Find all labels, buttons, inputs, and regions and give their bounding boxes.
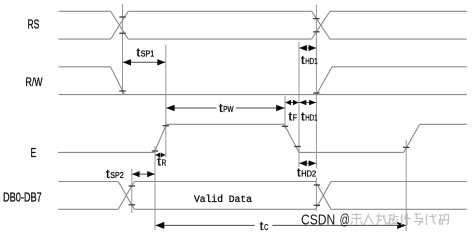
watermark hanzi 入	[364, 214, 374, 226]
watermark hanzi 与	[414, 213, 423, 225]
arrow line tF	[286, 102, 299, 104]
svg-text:SP2: SP2	[110, 171, 124, 180]
arrowhead tR left	[155, 153, 160, 158]
tick V1 x RW fall	[119, 90, 125, 92]
wire E high segment	[166, 123, 284, 125]
watermark hanzi 嵌	[351, 213, 363, 225]
arrowhead tHD1 top left	[299, 45, 307, 51]
RS crossover X1	[111, 11, 129, 39]
svg-text:SP1: SP1	[141, 50, 155, 59]
DB crossover X1	[118, 182, 134, 210]
svg-text:R: R	[162, 159, 167, 168]
tick V3 x E fall top	[282, 125, 288, 127]
arrowhead tHD1 bottom right	[309, 100, 316, 105]
svg-text:@: @	[340, 212, 350, 229]
tick V5 x RW rise	[313, 92, 319, 94]
svg-text:Valid Data: Valid Data	[194, 194, 252, 206]
watermark hanzi 代	[426, 214, 436, 226]
svg-text:C: C	[264, 223, 268, 232]
arrowhead tPW right	[276, 105, 285, 111]
arrow line tHD2	[300, 162, 316, 164]
measure line V7 at E rise start	[154, 146, 156, 230]
arrowhead tSP1 right	[157, 59, 165, 65]
wire DB0-DB7 high segments	[59, 181, 467, 183]
wire E low segments	[58, 151, 404, 153]
arrow line tPW left part	[166, 107, 216, 109]
E falling edge	[284, 124, 299, 152]
watermark hanzi 码	[439, 215, 449, 225]
tick V8 x E rise2	[403, 146, 409, 148]
svg-text:PW: PW	[223, 105, 234, 114]
wire RS high segments	[59, 10, 467, 12]
tick V6 x DB X1 rise	[129, 185, 135, 187]
tick V7 x E rise1 bottom	[152, 150, 158, 152]
wire R/W high segments	[59, 66, 467, 68]
arrowhead tHD2 left	[299, 160, 307, 166]
arrow line tHD1 top	[300, 47, 316, 49]
tick V5 x RS2 fall	[313, 18, 319, 20]
wire DB0-DB7 low segments	[58, 208, 467, 210]
R/W rising edge	[316, 67, 332, 95]
tick V6 x DB X1 fall	[129, 204, 135, 206]
arrow line tR	[156, 154, 166, 156]
arrow line tSP1	[123, 61, 165, 63]
arrowhead tC right	[397, 222, 406, 229]
svg-text:DB0-DB7: DB0-DB7	[3, 189, 42, 204]
svg-text:HD2: HD2	[301, 170, 316, 179]
wire R/W low full line	[59, 94, 467, 96]
measure line V4 at E fall bottom	[298, 42, 300, 167]
tick V2 x E rise1 top	[163, 125, 169, 127]
measure line V5 at RS X2	[315, 5, 317, 211]
svg-text:HD1: HD1	[305, 57, 318, 66]
arrowhead tHD1 bottom left	[299, 100, 306, 105]
arrow line tC left part	[156, 224, 255, 226]
svg-text:F: F	[293, 113, 297, 122]
wire RS low segments	[59, 38, 467, 40]
svg-text:HD1: HD1	[305, 114, 318, 123]
E rising edge 1	[154, 124, 166, 152]
arrow line tHD1 bottom	[300, 102, 316, 104]
R/W falling edge	[111, 67, 125, 95]
tick V5 x DB X2 fall	[314, 184, 320, 186]
measure line V1 at RS X1	[122, 4, 124, 94]
watermark hanzi 式	[376, 213, 388, 225]
E rising edge 2	[404, 124, 420, 152]
measure line V6 at DB X1	[131, 169, 133, 213]
arrowhead tF left	[285, 100, 291, 105]
RS crossover X2	[312, 11, 330, 39]
measure line V3 at E fall top	[284, 96, 286, 129]
DB crossover X2	[316, 182, 332, 210]
svg-text:RS: RS	[28, 17, 40, 32]
svg-text:CSDN: CSDN	[301, 212, 335, 229]
label tHD2 white backing	[296, 168, 318, 178]
arrowhead tHD2 right	[309, 160, 317, 166]
svg-text:R/W: R/W	[26, 75, 43, 89]
tick V1 x RS rise	[119, 16, 125, 18]
arrow line tPW right part	[236, 107, 285, 109]
tick V5 x DB X2 rise	[314, 204, 320, 206]
arrowhead tHD1 top right	[309, 45, 317, 51]
tick V5 x RS2 rise	[313, 31, 319, 33]
watermark hanzi 硬	[388, 214, 398, 226]
arrowhead tC left	[156, 222, 165, 229]
wire E high right segment	[420, 123, 467, 125]
arrow line tSP2	[132, 173, 154, 175]
arrowhead tSP2 right	[147, 171, 155, 177]
arrowhead tF right	[293, 100, 299, 105]
arrowhead tSP1 left	[123, 59, 131, 65]
watermark hanzi 件	[401, 214, 411, 226]
measure line V2 at E rise top	[165, 45, 167, 158]
arrowhead tPW left	[166, 105, 175, 111]
arrow line tC right part	[272, 224, 405, 226]
arrowhead tSP2 left	[132, 171, 140, 177]
arrowhead tR right	[161, 153, 166, 158]
measure line V8 at E rise 2	[405, 140, 407, 231]
svg-text:E: E	[31, 145, 37, 160]
tick V1 x RS fall	[119, 32, 125, 34]
tick V4 x E fall bottom	[294, 146, 300, 148]
